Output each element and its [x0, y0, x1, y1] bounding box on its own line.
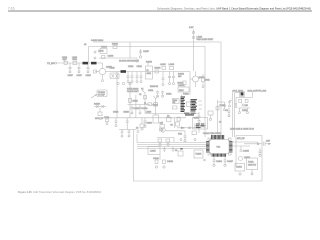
svg-text:R4021: R4021 [133, 101, 138, 103]
svg-text:C4012: C4012 [128, 66, 133, 68]
capacitor C4503 [235, 104, 237, 108]
antenna output wire [244, 140, 271, 146]
shield box outer [93, 42, 221, 137]
svg-text:C4021: C4021 [104, 117, 109, 119]
wire IC right out 142 [233, 141, 259, 143]
wire upper mod line [145, 113, 199, 115]
box L4015 [148, 147, 160, 155]
box U4004 [167, 116, 172, 122]
junction small circles top [94, 51, 96, 59]
capacitor C4001 [62, 57, 67, 64]
svg-text:P4001: P4001 [183, 93, 190, 95]
ferrite bead E4001 [83, 62, 89, 65]
svg-text:Schematic Diagrams, Overlays,: Schematic Diagrams, Overlays, and Parts … [157, 6, 311, 10]
wire bundle to IC left pins [137, 134, 206, 149]
connector pin labels column 1 [181, 97, 186, 112]
resistor R4012 bias [178, 81, 187, 87]
resistor R4027 box [177, 117, 180, 121]
svg-text:7-16: 7-16 [8, 6, 15, 10]
capacitor C4052 small box [178, 151, 183, 156]
resistor network lower row [119, 128, 139, 138]
capacitor C4407 below IC [224, 157, 234, 167]
svg-text:R45: R45 [245, 105, 248, 107]
svg-text:R4005: R4005 [146, 62, 153, 64]
svg-text:HAR FLT: HAR FLT [248, 164, 257, 167]
svg-text:R4030 1K: R4030 1K [150, 86, 159, 88]
svg-text:C4042: C4042 [167, 161, 174, 163]
modulation input symbol MOD_IN [94, 104, 106, 121]
resistor network R4401 [173, 99, 180, 110]
ground pair below bridge [239, 108, 249, 114]
box T4401 [247, 158, 258, 170]
test point callout TP4001 [91, 90, 107, 98]
junction X mark [204, 159, 206, 161]
svg-text:R4003: R4003 [112, 44, 119, 46]
capacitor C4003 shunt [77, 63, 82, 77]
connector pin labels column 2 [191, 99, 198, 111]
filter FL4001 [146, 62, 153, 80]
capacitor C4004 shunt [86, 63, 91, 77]
diode CR4501 [240, 92, 245, 97]
transistor Q4002 [190, 72, 205, 96]
capacitor C4023 shunt [131, 105, 141, 115]
shield box bottom section [135, 95, 137, 118]
svg-text:L4015: L4015 [150, 151, 156, 153]
svg-text:C4410: C4410 [243, 151, 250, 153]
resistor R4010 [178, 74, 185, 79]
capacitor C4011 shunt pair [136, 72, 143, 83]
capacitor C4410 [240, 146, 250, 153]
resistor R4006 [155, 68, 162, 74]
transformer T4001 [106, 68, 121, 79]
capacitor C4016 shunt pair [168, 72, 175, 85]
svg-text:C4007: C4007 [143, 51, 150, 53]
capacitor C4024 shunt [139, 105, 149, 115]
main rail row at 118 components [153, 115, 163, 125]
box L4050 [208, 111, 213, 121]
resistor R4025 [171, 122, 180, 127]
shield box inner [89, 47, 206, 138]
capacitor C4025 drop [124, 111, 129, 129]
svg-text:C4031: C4031 [148, 90, 153, 92]
ground below T4401 [251, 170, 253, 175]
ground G2 [194, 139, 196, 141]
svg-text:THIS CIRCUIT IS A UNIT WITH MA: THIS CIRCUIT IS A UNIT WITH MATCHING NET [119, 60, 139, 63]
resistor R4050 [216, 105, 226, 110]
ferrite bead E4002 [91, 62, 97, 65]
capacitor C4002 shunt [68, 63, 73, 77]
capacitor C4026 [144, 118, 147, 128]
wire mod rail [100, 117, 186, 119]
svg-text:TP4001: TP4001 [98, 92, 106, 94]
resistor R4021 on bus [129, 99, 138, 103]
svg-text:C4: C4 [167, 116, 169, 118]
capacitor C4021 left bracket [104, 117, 109, 125]
svg-text:T4401: T4401 [248, 162, 255, 164]
ground cluster below bundle [153, 155, 174, 168]
capacitor C4032 [156, 91, 159, 98]
svg-text:C4008: C4008 [86, 75, 91, 77]
capacitor C4044 pair [172, 147, 178, 153]
capacitor C4406 below IC [213, 157, 223, 167]
svg-text:C4041: C4041 [153, 158, 160, 160]
svg-text:C4051: C4051 [194, 118, 199, 120]
ground G1 [180, 139, 182, 141]
transistor Q4001 [95, 63, 113, 82]
resistor chain R4030 [139, 93, 158, 114]
resistor R4003 top [112, 44, 119, 49]
resistor R4002 top area [100, 47, 108, 59]
capacitor C4014 shunt [160, 64, 166, 86]
svg-text:L4006: L4006 [169, 64, 175, 66]
resistor R4503 [239, 100, 242, 103]
connector center box [187, 102, 192, 107]
box U4401 [235, 164, 245, 176]
svg-text:R4011: R4011 [205, 80, 210, 82]
svg-text:L4001: L4001 [98, 51, 104, 53]
capacitor C4006 at transistor base [94, 70, 97, 73]
svg-text:C4: C4 [226, 110, 228, 112]
capacitor C4050 on 199 [198, 112, 201, 123]
wire vertical L4010 feed [154, 96, 158, 115]
svg-text:C4: C4 [219, 122, 221, 124]
capacitor C4412 [259, 148, 262, 156]
svg-text:ANT_SW: ANT_SW [237, 137, 245, 140]
ferrite bead E4003 [121, 70, 127, 73]
header rule [8, 10, 312, 12]
wire driver rail [126, 71, 190, 73]
wire vertical bus 117 [116, 72, 118, 118]
connector bottom labels [184, 113, 196, 116]
svg-text:R4: R4 [171, 125, 173, 127]
inductor L4002 [72, 57, 77, 65]
box U4007 around pin ticks [193, 118, 208, 130]
resistor R4026 arrow [177, 127, 199, 133]
svg-text:TX_INJ: TX_INJ [47, 63, 54, 65]
wire IC right out 146 [233, 145, 251, 147]
svg-text:L4402 C4411 1 C4412 7.5 uH: L4402 C4411 1 C4412 7.5 uH [230, 129, 254, 131]
wire TX input rail [47, 62, 99, 65]
svg-text:U4005: U4005 [196, 154, 203, 156]
svg-text:J4001: J4001 [166, 94, 172, 96]
inductor L4006 series [169, 64, 175, 70]
wire vertical 130 top [129, 42, 131, 58]
svg-text:9.3V: 9.3V [189, 27, 194, 29]
wire mod output vertical pair [232, 90, 241, 137]
svg-text:C4407: C4407 [227, 161, 234, 163]
svg-text:C4005 R4001: C4005 R4001 [91, 40, 104, 42]
wire mod output net [236, 93, 252, 109]
capacitor C4010 shunt pair [127, 72, 134, 83]
resistor R4504 [245, 100, 248, 103]
svg-text:TX TAP: TX TAP [98, 94, 105, 97]
caps row right of box at 218-229 [218, 102, 231, 117]
svg-text:U4006: U4006 [101, 47, 108, 49]
IC U4400 PA [203, 133, 233, 157]
capacitor C4043 [163, 147, 166, 153]
transistor Q4501 [242, 104, 248, 108]
svg-text:MOD_OUTPUT_9V3: MOD_OUTPUT_9V3 [248, 91, 268, 93]
svg-text:C4008: C4008 [108, 56, 115, 58]
hatch bus to IC [194, 124, 206, 127]
box U4005 small [194, 150, 203, 158]
node 9.3V supply top [189, 27, 214, 71]
transistor Q4401 [238, 156, 250, 160]
svg-text:39nH: 39nH [73, 59, 78, 61]
connector labels top [166, 93, 190, 96]
wire bottom row 137.5 [157, 138, 174, 146]
svg-text:T4001: T4001 [109, 68, 116, 70]
wire vertical 236 [235, 136, 237, 167]
svg-text:C4: C4 [139, 94, 141, 96]
wire stub to shield [88, 47, 90, 64]
svg-text:BIAS: BIAS [179, 89, 184, 92]
svg-text:C4013: C4013 [137, 66, 142, 68]
svg-text:MOD_IN: MOD_IN [95, 118, 103, 120]
svg-text:U4002: U4002 [178, 85, 185, 87]
svg-text:C4022: C4022 [113, 111, 118, 113]
svg-text:U4400 PWR CNTRL: U4400 PWR CNTRL [203, 133, 222, 135]
svg-text:Figure 4-26. UHF Transmitter S: Figure 4-26. UHF Transmitter Schematic D… [18, 190, 101, 194]
svg-text:C4: C4 [175, 150, 177, 152]
svg-text:C4: C4 [136, 128, 138, 130]
resistor R4044 dark [180, 148, 183, 149]
svg-text:L4010: L4010 [146, 111, 151, 113]
pin name ticks left of IC [196, 124, 200, 125]
capacitor C4033 [161, 91, 164, 98]
ground symbols row at 83 [117, 82, 131, 84]
svg-text:PLACE C4017: PLACE C4017 [127, 90, 139, 93]
resistor R4011 [202, 74, 205, 88]
svg-text:C4502: C4502 [242, 110, 247, 112]
wire vertical 217.5 [217, 100, 219, 133]
svg-text:C4007: C4007 [68, 75, 73, 77]
capacitor C4022 drop [113, 111, 118, 126]
wire vertical 174.3 [173, 118, 175, 128]
svg-text:L4005: L4005 [160, 64, 166, 66]
svg-text:U4401: U4401 [236, 167, 243, 169]
row components above IC [140, 118, 164, 131]
svg-text:R4022: R4022 [124, 111, 129, 113]
svg-text:R4006: R4006 [155, 68, 162, 70]
svg-text:C4023: C4023 [134, 108, 141, 110]
ground symbol groups misc [139, 49, 150, 58]
box VR4001 [178, 131, 196, 136]
capacitor C4030 [184, 131, 187, 142]
wire sub rail 104.5 [128, 104, 151, 106]
svg-text:C4026: C4026 [147, 123, 152, 125]
svg-text:C4007: C4007 [77, 75, 82, 77]
svg-text:UNPLACED PART: UNPLACED PART [197, 38, 214, 41]
wire top bias row [98, 51, 137, 64]
capacitor C4504 left [228, 101, 232, 108]
svg-text:R4020: R4020 [94, 104, 101, 106]
wire vertical bus 130 [129, 82, 131, 118]
crystal Y4001 [141, 89, 145, 94]
connector right stubs [199, 101, 203, 109]
transistor Q4003 [160, 128, 186, 132]
svg-text:C4406: C4406 [216, 161, 223, 163]
